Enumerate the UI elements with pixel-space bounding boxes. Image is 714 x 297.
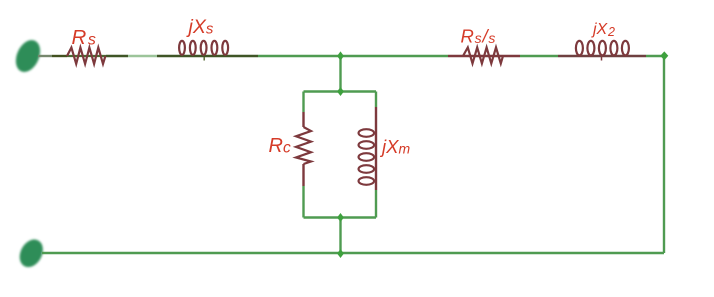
wire bottom rail (42, 252, 664, 254)
wire top rail: terminal stub (38, 55, 52, 57)
node junction diamond box bottom (337, 213, 344, 222)
wire coil L1 to node A and node A to R2 (258, 55, 448, 57)
wire under resistor R1 (67, 55, 106, 57)
wire pale segment (128, 55, 157, 57)
node junction diamond top right corner (660, 51, 668, 60)
wire dark segment under coil L1 (157, 55, 258, 57)
wire node A down to box top (339, 56, 341, 92)
wire box left vertical green bottom (302, 186, 304, 218)
inductor L1 (jXs) coil loops (179, 41, 228, 55)
svg-text:Rc: Rc (269, 135, 291, 157)
node junction diamond box top (337, 87, 344, 96)
wire maroon under coil L2 (558, 55, 646, 57)
wire R1 to pale segment (106, 55, 128, 57)
wire tick below coil L2 (601, 57, 603, 61)
wire box right vertical green bottom (375, 190, 377, 218)
node A junction diamond (top center) (337, 51, 344, 60)
wire box left maroon lead bottom (302, 164, 304, 186)
svg-text:jX2: jX2 (591, 21, 615, 39)
wire box left vertical green top (302, 92, 304, 113)
node B junction diamond (bottom rail) (337, 249, 344, 258)
svg-text:jXs: jXs (186, 16, 214, 38)
wire box bottom to node B (339, 218, 341, 254)
wire lead maroon under resistor R2 (448, 55, 520, 57)
wire right vertical (663, 56, 665, 253)
wire box right vertical green top (375, 92, 377, 108)
wire box bottom horizontal (304, 216, 377, 218)
wire tick below coil L1 (203, 57, 205, 61)
resistor R3 (Rc) vertical zigzag (296, 127, 311, 164)
svg-text:jXm: jXm (379, 136, 410, 157)
wire top rail: stub to R1 (52, 55, 67, 57)
resistor R2 (Rs/s) zigzag (463, 47, 503, 63)
inductor L3 (jXm) vertical coil loops (359, 129, 375, 185)
terminal T2 (bottom-left input) (15, 235, 47, 271)
wire box top horizontal (304, 90, 377, 92)
svg-text:Rs/s: Rs/s (461, 26, 496, 47)
wire coil L2 to right corner (646, 55, 664, 57)
wire box left maroon lead top (302, 112, 304, 127)
terminal T1 (top-left input) (11, 36, 45, 76)
inductor L2 (jX2) coil loops (576, 41, 629, 56)
wire box right maroon lead (behind coil) (375, 107, 377, 190)
resistor R1 (Rs) zigzag (67, 48, 105, 64)
svg-text:Rs: Rs (72, 26, 96, 49)
wire R2 to coil L2 (520, 55, 558, 57)
